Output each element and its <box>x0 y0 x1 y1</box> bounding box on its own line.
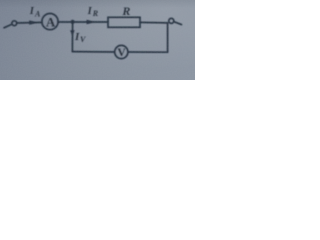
label IR <box>87 6 99 18</box>
label IA <box>29 6 41 18</box>
current arrow IA <box>29 20 39 24</box>
wire ammeter to resistor <box>58 21 108 23</box>
current arrow IV <box>70 30 75 36</box>
right terminal circle <box>169 18 174 23</box>
left terminal stub <box>4 25 11 28</box>
bottom wire left <box>72 51 114 53</box>
resistor R <box>108 17 140 27</box>
current arrow IR <box>87 20 97 24</box>
wire left terminal to ammeter <box>17 21 42 24</box>
ammeter A1 <box>42 14 58 30</box>
left terminal circle <box>12 21 17 26</box>
junction node <box>71 20 75 24</box>
right vertical wire <box>167 23 169 52</box>
right terminal stub <box>174 22 181 25</box>
voltmeter branch vertical wire <box>71 22 73 52</box>
wire resistor to right terminal <box>140 21 168 24</box>
label R <box>121 4 130 18</box>
bottom wire right <box>128 51 168 53</box>
voltmeter V1 <box>115 45 128 58</box>
label IV <box>74 31 86 44</box>
